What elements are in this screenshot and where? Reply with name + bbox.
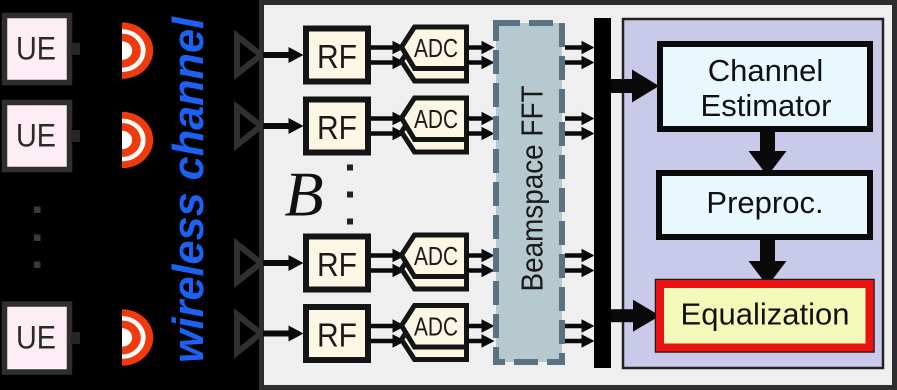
baseband processing panel	[623, 19, 883, 368]
svg-text:Preproc.: Preproc.	[706, 185, 823, 220]
RF chain box RF2	[306, 100, 368, 153]
wire Channel Estimator to Preproc	[749, 129, 787, 176]
wire RF2 to ADC2 (upper)	[371, 112, 406, 126]
wire ADC4 to FFT (upper)	[467, 319, 495, 333]
svg-text:RF: RF	[317, 38, 357, 75]
wire FFT to bus (row 3 upper)	[565, 249, 595, 263]
Channel Estimator block	[660, 44, 870, 129]
wire RF3 to ADC3 (upper)	[371, 249, 406, 263]
svg-text:ADC: ADC	[414, 104, 458, 134]
wire ADC3 to FFT (upper)	[467, 249, 495, 263]
svg-text:UE: UE	[16, 320, 56, 356]
wire RF1 to ADC1 (lower)	[371, 56, 406, 70]
svg-text:RF: RF	[317, 317, 357, 354]
svg-text:ADC: ADC	[414, 312, 458, 342]
RF chain box RF1	[306, 29, 368, 82]
wire FFT to bus (row 2 lower)	[565, 127, 595, 141]
wire ADC4 to FFT (lower)	[467, 334, 495, 348]
black background (left region)	[0, 0, 262, 390]
wire ADC2 to FFT (upper)	[467, 112, 495, 126]
wire FFT to bus (row 2 upper)	[565, 112, 595, 126]
svg-text:UE: UE	[16, 118, 56, 154]
ADC1 (stacked converters)	[402, 27, 467, 81]
RF chain box RF3	[306, 237, 368, 290]
svg-text:B: B	[284, 159, 323, 230]
radio wave icon 2 (UE transmit signal)	[122, 112, 153, 168]
wire antenna 1 to RF1	[263, 47, 304, 63]
Beamspace FFT block	[496, 23, 562, 362]
wire ADC3 to FFT (lower)	[467, 264, 495, 278]
UE box 3	[5, 304, 70, 372]
antenna 2	[237, 107, 261, 145]
ADC3 (stacked converters)	[402, 235, 467, 289]
radio wave icon 1 (UE transmit signal)	[122, 22, 153, 78]
wire ADC1 to FFT (upper)	[467, 41, 495, 55]
antenna 1	[237, 36, 261, 74]
wire antenna 4 to RF4	[263, 326, 304, 342]
antenna 3	[237, 244, 261, 282]
wire FFT to bus (row 3 lower)	[565, 264, 595, 278]
RF chain box RF4	[306, 307, 368, 360]
wire bus to Equalization	[611, 300, 660, 332]
svg-text:UE: UE	[16, 31, 56, 67]
wire bus to Channel Estimator	[611, 70, 659, 103]
beamspace data bus (thick bar)	[594, 18, 611, 368]
ADC2 (stacked converters)	[402, 98, 467, 152]
UE box 1	[5, 16, 70, 83]
wire antenna 3 to RF3	[263, 255, 304, 271]
wire FFT to bus (row 4 upper)	[565, 319, 595, 333]
wire RF4 to ADC4 (lower)	[371, 334, 406, 348]
svg-text:ADC: ADC	[414, 241, 458, 271]
vertical dots (more UEs)	[34, 207, 41, 269]
label: wireless channel	[164, 16, 213, 363]
vertical dots (more RF chains)	[347, 165, 353, 225]
svg-text:Estimator: Estimator	[701, 88, 832, 123]
Preproc block	[659, 173, 870, 237]
svg-text:wireless channel: wireless channel	[164, 16, 213, 363]
wire FFT to bus (row 1 lower)	[565, 56, 595, 70]
svg-text:Channel: Channel	[708, 53, 823, 88]
svg-text:RF: RF	[317, 109, 357, 146]
antenna 4	[237, 315, 261, 353]
svg-text:Equalization: Equalization	[681, 297, 850, 332]
wire antenna 2 to RF2	[263, 118, 304, 134]
wire FFT to bus (row 1 upper)	[565, 41, 595, 55]
label B (number of antennas)	[284, 159, 323, 230]
wire stub from UE 1	[71, 43, 80, 55]
wire ADC2 to FFT (lower)	[467, 127, 495, 141]
Equalization block	[656, 280, 875, 353]
radio wave icon 3 (UE transmit signal)	[122, 309, 153, 365]
wire RF2 to ADC2 (lower)	[371, 127, 406, 141]
svg-text:ADC: ADC	[414, 33, 458, 63]
wire stub from UE 2	[71, 130, 80, 142]
wire FFT to bus (row 4 lower)	[565, 334, 595, 348]
wire RF3 to ADC3 (lower)	[371, 264, 406, 278]
wire RF4 to ADC4 (upper)	[371, 319, 406, 333]
ADC4 (stacked converters)	[402, 306, 467, 360]
wire Preproc to Equalization	[749, 237, 787, 286]
svg-text:Beamspace FFT: Beamspace FFT	[515, 85, 550, 291]
wire RF1 to ADC1 (upper)	[371, 41, 406, 55]
wire stub from UE 3	[71, 332, 80, 344]
svg-text:RF: RF	[317, 246, 357, 283]
UE box 2	[5, 103, 70, 170]
main receiver box frame	[262, 3, 895, 388]
wire ADC1 to FFT (lower)	[467, 56, 495, 70]
